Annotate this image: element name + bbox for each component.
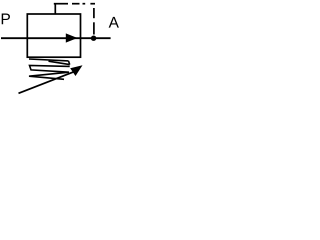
- port label A: [109, 17, 119, 28]
- valve envelope V1: [27, 14, 80, 57]
- wire pilot stub from envelope top: [54, 4, 56, 14]
- spring S1 right bend: [69, 61, 70, 65]
- adjustment arrowhead: [70, 65, 82, 76]
- spring S1 coil stroke: [49, 61, 70, 64]
- adjustment arrow shaft: [19, 71, 78, 94]
- junction node on A line: [91, 36, 96, 41]
- spring S1 top stroke: [29, 59, 69, 61]
- flow direction arrowhead: [66, 33, 78, 42]
- pilot line dashed horizontal segment: [54, 3, 95, 5]
- wire flow path P to A: [1, 37, 111, 39]
- port label P: [2, 14, 10, 25]
- spring S1 lower zigzag: [29, 66, 70, 80]
- pilot line dashed vertical segment: [93, 8, 95, 35]
